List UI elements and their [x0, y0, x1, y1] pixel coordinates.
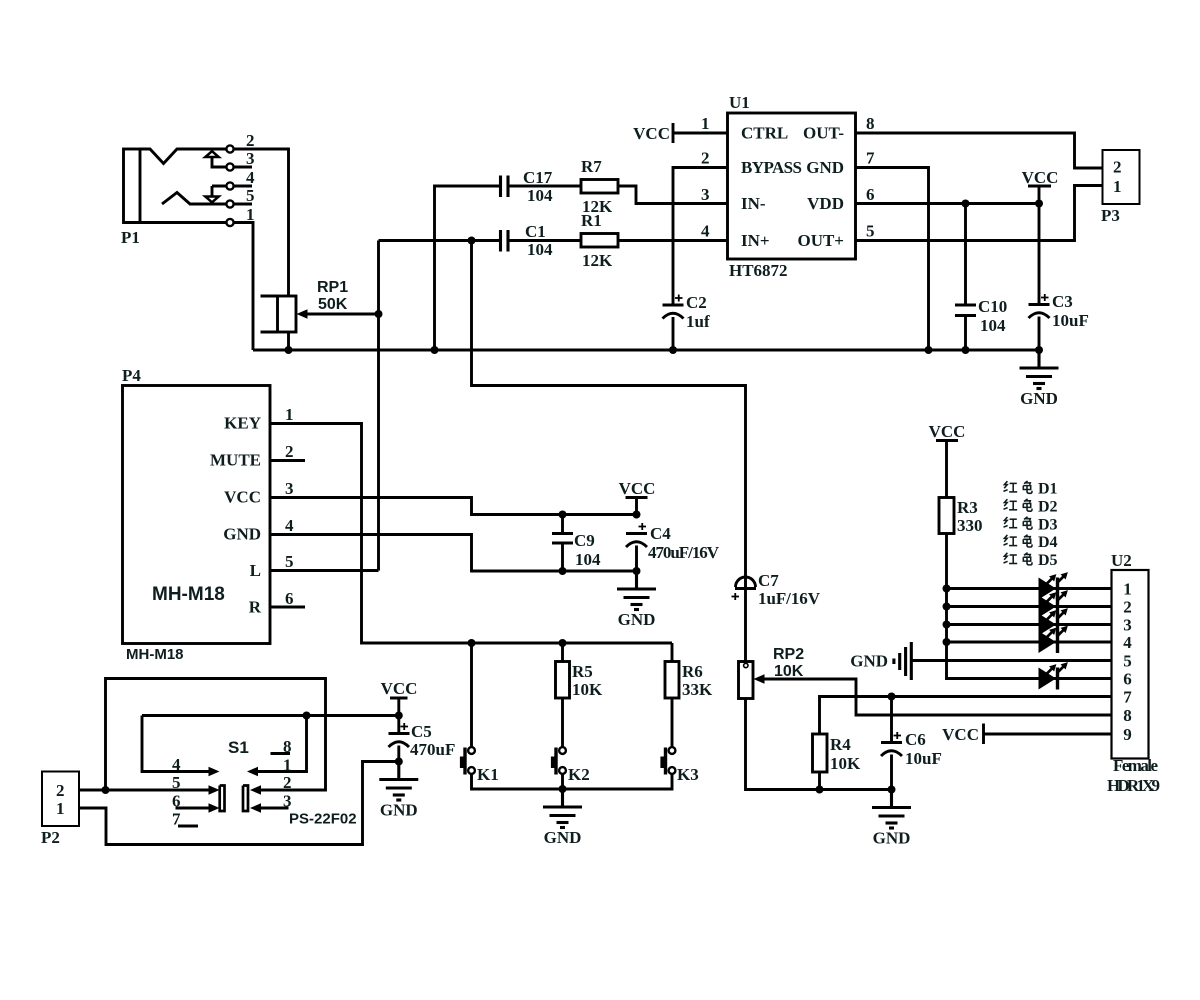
- LED D1: [1039, 570, 1071, 600]
- svg-text:MUTE: MUTE: [210, 451, 261, 470]
- capacitor C4: [626, 523, 720, 571]
- svg-text:3: 3: [285, 479, 294, 498]
- svg-text:8: 8: [866, 114, 875, 133]
- S1 left contact: [220, 786, 225, 812]
- LED D4: [1039, 623, 1071, 653]
- svg-text:R1: R1: [581, 211, 602, 230]
- RP1 wiper arrow: [297, 309, 379, 319]
- P1 pin 5 circle: [226, 200, 233, 207]
- svg-text:6: 6: [1123, 670, 1132, 689]
- node C6-bus: [888, 786, 896, 794]
- svg-text:1: 1: [283, 756, 292, 775]
- U1 pin numbers: [701, 114, 875, 241]
- ground at bus right end: [1020, 350, 1059, 408]
- wire U1 pin2 BYPASS to C2: [673, 168, 728, 306]
- S1 pin1 arrow: [247, 716, 307, 777]
- svg-text:C3: C3: [1052, 292, 1073, 311]
- wire R5 top: [561, 643, 564, 662]
- label red D5: [1004, 552, 1058, 569]
- svg-text:L: L: [250, 561, 261, 580]
- svg-text:C4: C4: [650, 524, 671, 543]
- wire S1 outer loop: [106, 679, 326, 791]
- svg-text:C5: C5: [411, 722, 432, 741]
- wire K1 drop: [470, 643, 473, 747]
- resistor R6: [665, 662, 713, 700]
- wire P4 GND to C9/C4 bottom: [270, 535, 637, 572]
- wire LED row3: [947, 623, 1112, 626]
- svg-text:P3: P3: [1101, 206, 1120, 225]
- svg-text:R3: R3: [957, 498, 978, 517]
- svg-text:U2: U2: [1111, 551, 1132, 570]
- node S1 pin1 top: [303, 712, 311, 720]
- svg-text:10K: 10K: [572, 680, 603, 699]
- S1 right contact: [243, 786, 248, 812]
- node C17-bus: [431, 346, 439, 354]
- capacitor C1: [501, 222, 554, 259]
- ground below C6: [872, 790, 911, 848]
- wire P4 KEY to button bus: [270, 424, 672, 644]
- svg-text:104: 104: [980, 316, 1006, 335]
- svg-text:7: 7: [866, 149, 875, 168]
- node key bus K1: [468, 639, 476, 647]
- P1 pin stubs: [124, 167, 253, 223]
- svg-text:3: 3: [246, 149, 255, 168]
- svg-text:5: 5: [1123, 652, 1132, 671]
- svg-text:VCC: VCC: [1022, 168, 1059, 187]
- P4 pin numbers: [285, 405, 294, 608]
- connector P2: [41, 772, 79, 848]
- svg-text:RP1: RP1: [317, 279, 348, 296]
- power VCC above R3: [929, 422, 966, 498]
- svg-text:2: 2: [56, 781, 65, 800]
- resistor R5: [556, 662, 604, 700]
- svg-text:1: 1: [701, 114, 710, 133]
- capacitor C3: [1029, 204, 1089, 351]
- power VCC above C4: [619, 479, 656, 515]
- wire R3 bottom to LED column: [947, 534, 1112, 679]
- svg-text:5: 5: [246, 186, 255, 205]
- svg-text:K2: K2: [568, 765, 590, 784]
- node C5 bottom: [395, 758, 403, 766]
- wire U2 pin5 row: [911, 659, 1111, 662]
- svg-text:1: 1: [56, 799, 65, 818]
- svg-text:10uF: 10uF: [1052, 311, 1089, 330]
- switch S1 PS-22F02: [228, 738, 357, 828]
- P1 pin 2 circle: [226, 145, 233, 152]
- P1 pin 3 circle: [226, 163, 233, 170]
- svg-text:5: 5: [285, 552, 294, 571]
- svg-text:IN+: IN+: [741, 231, 770, 250]
- P1 up arrow: [205, 151, 226, 167]
- svg-text:HT6872: HT6872: [729, 261, 788, 280]
- svg-text:1: 1: [285, 405, 294, 424]
- capacitor C5: [389, 716, 456, 762]
- svg-text:R5: R5: [572, 662, 593, 681]
- wire U1 pin6 VDD row: [856, 202, 1040, 205]
- wire P4 VCC to C9/C4: [270, 498, 637, 515]
- node row3: [943, 621, 951, 629]
- node C3-bus: [1035, 346, 1043, 354]
- svg-text:R7: R7: [581, 157, 602, 176]
- button K2: [551, 747, 590, 784]
- svg-text:MH-M18: MH-M18: [152, 584, 225, 605]
- node C2-bus: [669, 346, 677, 354]
- svg-text:2: 2: [1113, 158, 1122, 177]
- svg-text:D5: D5: [1038, 552, 1058, 569]
- svg-text:VCC: VCC: [619, 479, 656, 498]
- button K3: [660, 747, 698, 784]
- svg-text:3: 3: [701, 185, 710, 204]
- wire R6 to K3: [671, 698, 674, 747]
- svg-text:1: 1: [1113, 177, 1122, 196]
- power VCC at U2 pin9: [942, 724, 983, 745]
- connector P1: [121, 149, 140, 247]
- node C1 input: [468, 237, 476, 245]
- RP2 wiper arrow to U2 pin8: [754, 674, 1112, 715]
- wire S1 top loop to VCC: [142, 714, 399, 717]
- svg-text:1uF/16V: 1uF/16V: [758, 589, 821, 608]
- svg-text:8: 8: [283, 737, 292, 756]
- capacitor C2: [663, 293, 710, 331]
- LED D2: [1039, 588, 1071, 618]
- wire U1 pin8 to P3 pin2: [856, 133, 1103, 168]
- wire U1 pin1: [673, 132, 728, 135]
- node row4: [943, 638, 951, 646]
- node C9 top: [559, 511, 567, 519]
- svg-text:R: R: [249, 598, 262, 617]
- wire P2 pin1 bottom path to C5: [79, 762, 399, 845]
- capacitor C17: [501, 168, 554, 205]
- resistor R7: [581, 157, 618, 216]
- svg-text:C9: C9: [574, 531, 595, 550]
- svg-text:C17: C17: [523, 168, 553, 187]
- svg-text:MH-M18: MH-M18: [126, 646, 184, 663]
- wire R7 to U1 pin3: [618, 186, 728, 204]
- svg-text:GND: GND: [380, 801, 418, 820]
- wire bus: main ground bus: [253, 349, 1039, 352]
- potentiometer RP2: [739, 646, 805, 699]
- node R4-bus: [816, 786, 824, 794]
- resistor R4: [813, 734, 862, 773]
- S1 pin5 arrow: [209, 785, 220, 795]
- svg-text:OUT-: OUT-: [803, 124, 844, 143]
- svg-text:470uF: 470uF: [410, 740, 455, 759]
- svg-text:GND: GND: [544, 828, 582, 847]
- P1 ring contact: [162, 193, 227, 205]
- ground below C5: [379, 762, 418, 820]
- wire R1 to U1 pin4: [618, 239, 728, 242]
- S1 pin2 arrow: [250, 785, 261, 795]
- svg-text:33K: 33K: [682, 680, 713, 699]
- svg-text:D2: D2: [1038, 498, 1058, 515]
- svg-text:VCC: VCC: [381, 679, 418, 698]
- wire U2 pin9 row: [984, 733, 1112, 736]
- svg-text:C6: C6: [905, 730, 926, 749]
- svg-text:C2: C2: [686, 293, 707, 312]
- op-amp U1 HT6872: [728, 93, 856, 280]
- svg-text:VCC: VCC: [224, 488, 261, 507]
- svg-text:K3: K3: [677, 765, 699, 784]
- svg-text:10K: 10K: [830, 754, 861, 773]
- svg-text:7: 7: [1123, 688, 1132, 707]
- wire P2 pin2 to S1: [79, 789, 213, 792]
- svg-text:2: 2: [246, 131, 255, 150]
- svg-text:P1: P1: [121, 228, 140, 247]
- P1 tip contact: [140, 149, 227, 164]
- wire C1 node down and right to C7: [472, 241, 746, 589]
- svg-text:10uF: 10uF: [905, 749, 942, 768]
- svg-text:GND: GND: [873, 829, 911, 848]
- LED D5: [1039, 660, 1071, 690]
- svg-text:P4: P4: [122, 366, 141, 385]
- capacitor C6: [881, 697, 942, 790]
- svg-text:S1: S1: [228, 738, 249, 757]
- svg-text:8: 8: [1123, 706, 1132, 725]
- button K1: [460, 747, 499, 784]
- svg-text:PS-22F02: PS-22F02: [289, 811, 357, 828]
- svg-text:5: 5: [172, 773, 181, 792]
- svg-text:GND: GND: [223, 525, 261, 544]
- svg-text:GND: GND: [850, 652, 888, 671]
- label red D1: [1004, 481, 1058, 498]
- ground sideways at U2 pin5: [850, 642, 911, 680]
- node row2: [943, 603, 951, 611]
- svg-text:P2: P2: [41, 828, 60, 847]
- svg-text:D3: D3: [1038, 516, 1058, 533]
- wire U1 pin5 to P3 pin1: [856, 186, 1103, 241]
- wire R4 top to row7: [820, 697, 1112, 735]
- svg-text:C1: C1: [525, 222, 546, 241]
- svg-text:104: 104: [575, 550, 601, 569]
- svg-text:IN-: IN-: [741, 194, 766, 213]
- P1 down arrow: [205, 186, 226, 202]
- svg-text:U1: U1: [729, 93, 750, 112]
- wire P4 L to wiper node: [270, 569, 379, 572]
- svg-text:R4: R4: [830, 735, 851, 754]
- wire R4 bottom: [818, 772, 821, 790]
- svg-text:RP2: RP2: [773, 646, 804, 663]
- svg-text:50K: 50K: [318, 296, 348, 313]
- S1 pin8 stub: [271, 752, 291, 755]
- wire LED row2: [947, 605, 1112, 608]
- svg-text:CTRL: CTRL: [741, 124, 788, 143]
- wire LED row1: [947, 587, 1112, 590]
- wire C17 left to bus: [435, 186, 501, 350]
- svg-text:6: 6: [172, 792, 181, 811]
- svg-text:VCC: VCC: [929, 422, 966, 441]
- LED D3: [1039, 606, 1071, 636]
- node C10-bus: [962, 346, 970, 354]
- svg-text:5: 5: [866, 222, 875, 241]
- ground below K2: [543, 789, 582, 847]
- S1 pin7 stub: [178, 825, 198, 828]
- svg-text:GND: GND: [618, 610, 656, 629]
- svg-text:4: 4: [246, 168, 255, 187]
- capacitor C10: [955, 204, 1007, 351]
- wire C17 to R7: [508, 185, 581, 188]
- wire buttons bottom bus: [472, 774, 673, 789]
- capacitor C9: [552, 515, 601, 572]
- svg-text:4: 4: [701, 222, 710, 241]
- svg-text:6: 6: [866, 185, 875, 204]
- svg-text:470uF/16V: 470uF/16V: [648, 543, 720, 562]
- svg-text:2: 2: [285, 442, 294, 461]
- svg-text:1uf: 1uf: [686, 312, 710, 331]
- svg-text:VCC: VCC: [633, 124, 670, 143]
- svg-text:R6: R6: [682, 662, 703, 681]
- svg-text:2: 2: [701, 149, 710, 168]
- label red D2: [1004, 498, 1058, 515]
- connector U2 HDR1X9: [1107, 551, 1160, 795]
- node P2 pin2: [102, 786, 110, 794]
- S1 pin numbers: [172, 737, 292, 829]
- power VCC above C5: [381, 679, 418, 716]
- wire R6 top: [671, 643, 674, 662]
- wire P1 pin2 to RP1: [234, 149, 289, 296]
- wire K2 bottom: [561, 774, 564, 789]
- node VDD-C10: [962, 200, 970, 208]
- wire C1 to R1: [508, 239, 581, 242]
- node pin7-bus: [925, 346, 933, 354]
- svg-text:3: 3: [1123, 616, 1132, 635]
- wire P1 pin1 down to bus: [234, 223, 254, 351]
- wire C1 input row: [379, 239, 501, 242]
- resistor R3: [939, 498, 983, 536]
- svg-text:D1: D1: [1038, 481, 1058, 498]
- wire RP1 bottom to bus: [287, 332, 290, 350]
- svg-text:C7: C7: [758, 571, 779, 590]
- node wiper: [375, 310, 383, 318]
- node RP1-bus: [285, 346, 293, 354]
- node VCC C5 top: [395, 712, 403, 720]
- P1 pin numbers: [246, 131, 255, 224]
- svg-text:GND: GND: [1020, 389, 1058, 408]
- label red D3: [1004, 516, 1058, 533]
- S1 pin4 arrow: [142, 716, 220, 777]
- wire R5 to K2: [561, 698, 564, 747]
- svg-text:1: 1: [1123, 580, 1132, 599]
- P1 pin 4 circle: [226, 182, 233, 189]
- node VDD-VCC: [1035, 200, 1043, 208]
- S1 pin3 arrow: [250, 803, 289, 813]
- svg-text:BYPASS: BYPASS: [741, 158, 802, 177]
- svg-text:Female: Female: [1113, 756, 1158, 775]
- svg-text:GND: GND: [806, 158, 844, 177]
- potentiometer RP1: [261, 279, 349, 332]
- svg-text:C10: C10: [978, 297, 1007, 316]
- connector P3: [1101, 150, 1140, 225]
- svg-text:12K: 12K: [582, 251, 613, 270]
- label red D4: [1004, 534, 1058, 551]
- node row1: [943, 585, 951, 593]
- svg-text:HDR1X9: HDR1X9: [1107, 776, 1160, 795]
- svg-text:104: 104: [527, 240, 553, 259]
- svg-text:OUT+: OUT+: [797, 231, 844, 250]
- module P4 MH-M18: [122, 366, 270, 663]
- wire C2 to bus: [672, 317, 675, 350]
- wire LED row4: [947, 641, 1112, 644]
- svg-text:3: 3: [283, 792, 292, 811]
- node VCC-C4: [633, 511, 641, 519]
- svg-text:330: 330: [957, 516, 983, 535]
- wire P4 R stub: [270, 606, 305, 609]
- node C6 row7: [888, 693, 896, 701]
- svg-text:10K: 10K: [774, 663, 804, 680]
- svg-text:K1: K1: [477, 765, 499, 784]
- svg-text:4: 4: [172, 755, 181, 774]
- wire P4 MUTE stub: [270, 459, 305, 462]
- svg-text:9: 9: [1123, 725, 1132, 744]
- svg-text:KEY: KEY: [224, 414, 261, 433]
- ground below C4: [617, 571, 656, 629]
- power VCC above C3: [1022, 168, 1059, 204]
- P1 pin 1 circle: [226, 219, 233, 226]
- svg-text:104: 104: [527, 186, 553, 205]
- resistor R1: [581, 211, 618, 270]
- S1 pin6 arrow: [176, 803, 220, 813]
- node key bus R5: [559, 639, 567, 647]
- node K2 bus: [559, 785, 567, 793]
- power VCC at U1 pin1: [633, 123, 673, 143]
- svg-text:2: 2: [1123, 598, 1132, 617]
- node C4 bottom: [633, 567, 641, 575]
- svg-text:7: 7: [172, 810, 181, 829]
- svg-text:D4: D4: [1038, 534, 1058, 551]
- svg-text:VDD: VDD: [807, 194, 844, 213]
- svg-text:2: 2: [283, 773, 292, 792]
- node C9 bottom: [559, 567, 567, 575]
- svg-text:4: 4: [285, 516, 294, 535]
- wire U1 pin7 to bus: [856, 168, 929, 351]
- capacitor C7: [732, 571, 821, 662]
- svg-text:4: 4: [1123, 633, 1132, 652]
- wire wiper node vertical to L pin: [377, 241, 380, 571]
- wire RP2 bottom to ground bus: [746, 699, 892, 790]
- svg-text:6: 6: [285, 589, 294, 608]
- svg-text:VCC: VCC: [942, 725, 979, 744]
